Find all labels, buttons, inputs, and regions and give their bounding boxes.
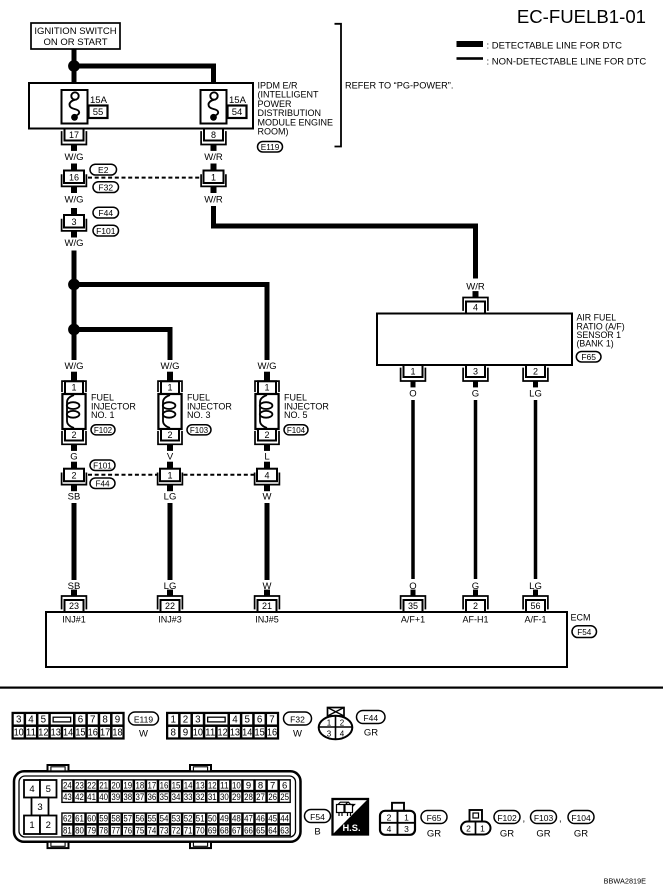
svg-text:16: 16 xyxy=(267,728,278,739)
svg-text:ECM: ECM xyxy=(571,613,591,623)
svg-text:3: 3 xyxy=(195,715,201,726)
svg-text:: NON-DETECTABLE LINE FOR DTC: : NON-DETECTABLE LINE FOR DTC xyxy=(487,57,647,68)
svg-text:12: 12 xyxy=(38,728,48,739)
svg-text:42: 42 xyxy=(75,792,84,803)
svg-text:54: 54 xyxy=(160,814,169,825)
connector 4 (F101/F44) xyxy=(255,462,280,492)
connector label F44 xyxy=(93,207,119,218)
IPDM pin 8 xyxy=(201,129,226,151)
svg-text:LG: LG xyxy=(164,492,177,503)
svg-text:63: 63 xyxy=(280,825,289,836)
svg-text:,: , xyxy=(559,814,562,825)
svg-text:F32: F32 xyxy=(98,182,113,192)
svg-text:4: 4 xyxy=(473,303,478,313)
svg-text:73: 73 xyxy=(160,825,169,836)
svg-text:70: 70 xyxy=(196,825,205,836)
svg-text:8: 8 xyxy=(258,780,263,791)
svg-text:10: 10 xyxy=(232,780,241,791)
dashed connector link F101/F44 right xyxy=(184,474,255,476)
connector label F101 row2 xyxy=(90,460,115,471)
svg-text:49: 49 xyxy=(220,814,229,825)
connector 3 (F44/F101) xyxy=(62,208,87,238)
svg-text:56: 56 xyxy=(135,814,144,825)
svg-text:3: 3 xyxy=(71,217,76,227)
svg-text:3: 3 xyxy=(327,730,332,739)
svg-text:GR: GR xyxy=(500,829,514,840)
svg-text:W/G: W/G xyxy=(65,361,84,372)
svg-text:71: 71 xyxy=(184,825,193,836)
svg-text:15: 15 xyxy=(75,728,86,739)
svg-text:F103: F103 xyxy=(534,813,554,823)
air fuel ratio sensor label xyxy=(577,313,625,349)
svg-text:L: L xyxy=(264,452,269,463)
svg-text:F103: F103 xyxy=(190,426,209,435)
svg-text:2: 2 xyxy=(71,471,76,481)
svg-text:23: 23 xyxy=(75,780,84,791)
svg-text:5: 5 xyxy=(46,784,51,795)
svg-text:3: 3 xyxy=(37,802,42,813)
connector label F103 for fuel injector No.3 xyxy=(187,425,211,435)
svg-text:E119: E119 xyxy=(134,714,153,724)
svg-text:55: 55 xyxy=(148,814,157,825)
svg-text:4: 4 xyxy=(387,824,392,834)
svg-text:O: O xyxy=(409,389,416,400)
svg-text:2: 2 xyxy=(264,430,269,440)
connector label F65 legend xyxy=(421,811,447,824)
svg-text:BBWA2819E: BBWA2819E xyxy=(604,877,646,886)
ECM connector pin grid rows 6-81 xyxy=(62,780,290,836)
svg-text:2: 2 xyxy=(387,812,392,822)
connector label F102 legend xyxy=(494,811,520,824)
svg-text:1: 1 xyxy=(264,383,269,393)
svg-text:14: 14 xyxy=(63,728,74,739)
svg-text:30: 30 xyxy=(220,792,229,803)
ECM connector key block pins 1-5 xyxy=(24,780,57,834)
svg-text:61: 61 xyxy=(75,814,84,825)
svg-text:6: 6 xyxy=(282,780,287,791)
wire SB to ECM xyxy=(72,503,77,580)
svg-text:15A: 15A xyxy=(90,95,108,106)
svg-text:15: 15 xyxy=(255,728,266,739)
svg-text:7: 7 xyxy=(269,715,274,726)
connector 16 (E2/F32) xyxy=(62,164,87,194)
svg-text:11: 11 xyxy=(205,728,215,739)
svg-text:17: 17 xyxy=(100,728,110,739)
wire G to ECM xyxy=(474,400,478,579)
svg-text:50: 50 xyxy=(208,814,217,825)
junction dot ignition branch xyxy=(68,60,80,72)
separator line xyxy=(0,687,663,689)
svg-text:6: 6 xyxy=(257,715,263,726)
svg-text:17: 17 xyxy=(69,130,79,140)
svg-text:35: 35 xyxy=(408,601,418,611)
svg-text:62: 62 xyxy=(63,814,72,825)
svg-text:REFER TO “PG-POWER”.: REFER TO “PG-POWER”. xyxy=(345,81,453,91)
svg-text:5: 5 xyxy=(41,715,47,726)
IPDM pin 17 xyxy=(62,129,87,151)
fuse 55 15A xyxy=(62,90,108,124)
svg-text:29: 29 xyxy=(232,792,241,803)
svg-text:79: 79 xyxy=(87,825,96,836)
svg-text:34: 34 xyxy=(172,792,181,803)
svg-text:31: 31 xyxy=(208,792,217,803)
connector F32 pin grid xyxy=(167,713,278,739)
connector label F44 row2 xyxy=(90,478,115,489)
svg-text:W/G: W/G xyxy=(65,195,84,206)
svg-text:1: 1 xyxy=(170,715,175,726)
svg-text:G: G xyxy=(472,389,479,400)
svg-text:W/G: W/G xyxy=(65,152,84,163)
wire W/R to air fuel ratio sensor xyxy=(214,206,476,279)
connector label F32 legend xyxy=(284,712,312,725)
svg-text:F44: F44 xyxy=(95,479,110,488)
svg-text:53: 53 xyxy=(172,814,181,825)
svg-text:5: 5 xyxy=(245,715,251,726)
connector label F102 for fuel injector No.1 xyxy=(91,425,115,435)
ECM pin 56 xyxy=(523,590,548,612)
connector label F44 legend xyxy=(357,711,386,724)
svg-text:F44: F44 xyxy=(363,713,378,723)
svg-text:W: W xyxy=(263,492,272,503)
svg-text:IGNITION SWITCH: IGNITION SWITCH xyxy=(34,26,116,37)
svg-text:12: 12 xyxy=(208,780,217,791)
svg-text:72: 72 xyxy=(172,825,181,836)
connector 1 (F101/F44) xyxy=(158,462,183,492)
svg-text:F104: F104 xyxy=(571,813,591,823)
svg-text:GR: GR xyxy=(427,829,441,840)
svg-text:AF-H1: AF-H1 xyxy=(462,615,488,625)
svg-text:16: 16 xyxy=(88,728,99,739)
svg-text:7: 7 xyxy=(270,780,275,791)
dashed connector link F101/F44 left xyxy=(88,474,157,476)
svg-text:F65: F65 xyxy=(581,352,596,362)
svg-text:48: 48 xyxy=(232,814,241,825)
svg-text:10: 10 xyxy=(193,728,204,739)
svg-text:V: V xyxy=(167,452,174,463)
svg-text:58: 58 xyxy=(111,814,120,825)
connector label F104 legend xyxy=(568,811,594,824)
svg-text:1: 1 xyxy=(167,383,172,393)
svg-text:W/R: W/R xyxy=(466,282,485,293)
svg-text:SB: SB xyxy=(68,492,81,503)
svg-text:39: 39 xyxy=(111,792,120,803)
svg-text:23: 23 xyxy=(69,601,79,611)
svg-text:4: 4 xyxy=(232,715,238,726)
svg-text:51: 51 xyxy=(196,814,205,825)
svg-text:56: 56 xyxy=(530,601,540,611)
connector label F54 legend xyxy=(305,810,331,823)
sensor pin 4 xyxy=(463,291,488,313)
svg-text:F44: F44 xyxy=(98,208,113,218)
svg-text:43: 43 xyxy=(63,792,72,803)
connector label F65 for sensor xyxy=(576,352,601,363)
svg-text:F102: F102 xyxy=(94,426,113,435)
svg-text:44: 44 xyxy=(280,814,289,825)
svg-text:H.S.: H.S. xyxy=(342,823,360,833)
fuel injector No.5 xyxy=(255,372,329,451)
svg-text:8: 8 xyxy=(102,715,108,726)
svg-text:8: 8 xyxy=(170,728,176,739)
svg-text:15: 15 xyxy=(172,780,181,791)
svg-text:14: 14 xyxy=(184,780,193,791)
connector label F104 for fuel injector No.5 xyxy=(284,425,308,435)
connector label E2 xyxy=(90,164,117,175)
svg-text:40: 40 xyxy=(99,792,108,803)
svg-text:F101: F101 xyxy=(96,226,116,236)
svg-text:22: 22 xyxy=(165,601,175,611)
connector F44 round face xyxy=(319,708,353,740)
svg-text:E119: E119 xyxy=(261,143,280,152)
svg-text:80: 80 xyxy=(75,825,84,836)
svg-text:W/R: W/R xyxy=(204,195,223,206)
wire LG to ECM xyxy=(168,503,173,580)
svg-text:69: 69 xyxy=(208,825,217,836)
svg-text:,: , xyxy=(523,814,526,825)
ECM pin 2 xyxy=(463,590,488,612)
svg-text:LG: LG xyxy=(529,389,542,400)
svg-text:14: 14 xyxy=(242,728,253,739)
svg-text:F102: F102 xyxy=(497,813,517,823)
svg-text:A/F+1: A/F+1 xyxy=(401,615,425,625)
wire branch to fuse 54 xyxy=(74,66,214,90)
connector F102/F103/F104 face xyxy=(461,810,491,835)
wire branch to injector No.5 xyxy=(74,285,267,361)
svg-text:3: 3 xyxy=(404,824,409,834)
ECM pin 23 xyxy=(62,590,87,612)
svg-text:NO. 5: NO. 5 xyxy=(284,410,308,420)
svg-text:GR: GR xyxy=(364,728,378,739)
air fuel ratio sensor box xyxy=(377,314,572,366)
sensor pin 1 xyxy=(401,365,426,387)
svg-text:32: 32 xyxy=(196,792,205,803)
svg-text:F54: F54 xyxy=(310,812,325,822)
svg-text:28: 28 xyxy=(244,792,253,803)
svg-text:78: 78 xyxy=(99,825,108,836)
svg-text:9: 9 xyxy=(115,715,120,726)
svg-text:INJ#5: INJ#5 xyxy=(255,615,279,625)
svg-text:INJ#1: INJ#1 xyxy=(62,615,86,625)
svg-text:4: 4 xyxy=(264,471,269,481)
svg-text:13: 13 xyxy=(196,780,205,791)
svg-text:GR: GR xyxy=(536,829,550,840)
connector label F101 xyxy=(93,225,119,236)
svg-text:59: 59 xyxy=(99,814,108,825)
connector label E119 for IPDM E/R xyxy=(258,142,283,153)
svg-text:57: 57 xyxy=(123,814,132,825)
svg-text:54: 54 xyxy=(232,107,243,118)
svg-text:10: 10 xyxy=(14,728,25,739)
IPDM E/R label text xyxy=(258,80,334,136)
svg-text:18: 18 xyxy=(135,780,144,791)
svg-text:: DETECTABLE LINE FOR DTC: : DETECTABLE LINE FOR DTC xyxy=(487,41,623,52)
svg-text:26: 26 xyxy=(268,792,277,803)
svg-text:F104: F104 xyxy=(287,426,306,435)
fuse 54 15A xyxy=(201,90,247,124)
svg-text:A/F-1: A/F-1 xyxy=(524,615,546,625)
svg-text:21: 21 xyxy=(99,780,108,791)
sensor pin 3 xyxy=(463,365,488,387)
svg-text:F32: F32 xyxy=(290,714,305,724)
svg-text:17: 17 xyxy=(148,780,157,791)
svg-text:19: 19 xyxy=(123,780,132,791)
svg-text:67: 67 xyxy=(232,825,241,836)
svg-text:4: 4 xyxy=(29,784,34,795)
svg-text:81: 81 xyxy=(63,825,72,836)
connector F65 face xyxy=(380,803,415,835)
svg-text:68: 68 xyxy=(220,825,229,836)
legend non-detectable line symbol xyxy=(457,57,484,60)
ignition switch box xyxy=(31,23,120,49)
svg-text:52: 52 xyxy=(184,814,193,825)
H.S. harness symbol xyxy=(333,799,369,835)
wire LG to ECM xyxy=(534,400,538,579)
svg-text:4: 4 xyxy=(340,730,345,739)
connector label F54 for ECM xyxy=(572,626,597,638)
svg-text:NO. 1: NO. 1 xyxy=(91,410,115,420)
svg-text:33: 33 xyxy=(184,792,193,803)
svg-text:2: 2 xyxy=(46,820,51,831)
svg-text:W/R: W/R xyxy=(204,152,223,163)
svg-text:13: 13 xyxy=(230,728,241,739)
svg-text:1: 1 xyxy=(167,471,172,481)
svg-text:W: W xyxy=(293,729,302,740)
svg-text:2: 2 xyxy=(340,719,345,728)
svg-text:B: B xyxy=(314,827,320,838)
svg-text:1: 1 xyxy=(211,172,216,182)
svg-text:3: 3 xyxy=(16,715,22,726)
svg-text:GR: GR xyxy=(574,829,588,840)
svg-text:11: 11 xyxy=(220,780,229,791)
svg-text:INJ#3: INJ#3 xyxy=(158,615,182,625)
connector 2 (F101/F44) xyxy=(62,462,87,492)
svg-text:12: 12 xyxy=(217,728,227,739)
svg-text:F65: F65 xyxy=(427,813,442,823)
svg-text:11: 11 xyxy=(26,728,36,739)
svg-text:1: 1 xyxy=(29,820,34,831)
legend detectable line symbol xyxy=(457,41,484,47)
connector E119 pin grid xyxy=(13,713,124,739)
svg-text:4: 4 xyxy=(28,715,34,726)
svg-text:66: 66 xyxy=(244,825,253,836)
IPDM E/R box xyxy=(29,83,253,129)
svg-text:3: 3 xyxy=(473,367,478,377)
svg-text:7: 7 xyxy=(90,715,95,726)
svg-text:W/G: W/G xyxy=(65,238,84,249)
refer bracket xyxy=(335,24,342,147)
svg-text:21: 21 xyxy=(262,601,272,611)
svg-text:8: 8 xyxy=(211,130,216,140)
svg-text:35: 35 xyxy=(160,792,169,803)
svg-text:1: 1 xyxy=(71,383,76,393)
svg-text:W/G: W/G xyxy=(258,361,277,372)
svg-text:9: 9 xyxy=(246,780,251,791)
svg-text:64: 64 xyxy=(268,825,277,836)
connector label E119 legend xyxy=(129,712,159,725)
svg-text:ON OR START: ON OR START xyxy=(43,37,107,48)
svg-text:(BANK 1): (BANK 1) xyxy=(577,339,614,349)
svg-text:18: 18 xyxy=(112,728,123,739)
svg-text:1: 1 xyxy=(410,367,415,377)
dashed connector link E2/F32 xyxy=(88,177,200,179)
svg-text:2: 2 xyxy=(466,824,471,834)
svg-text:6: 6 xyxy=(78,715,84,726)
svg-text:60: 60 xyxy=(87,814,96,825)
svg-text:9: 9 xyxy=(183,728,188,739)
svg-text:F101: F101 xyxy=(93,461,112,470)
svg-text:25: 25 xyxy=(280,792,289,803)
svg-text:E2: E2 xyxy=(98,165,109,175)
svg-text:16: 16 xyxy=(69,172,79,182)
svg-text:22: 22 xyxy=(87,780,96,791)
svg-text:76: 76 xyxy=(123,825,132,836)
svg-text:38: 38 xyxy=(123,792,132,803)
ECM connector F54 housing xyxy=(14,765,301,848)
svg-text:2: 2 xyxy=(533,367,538,377)
svg-text:65: 65 xyxy=(256,825,265,836)
svg-text:ROOM): ROOM) xyxy=(258,127,289,137)
svg-text:G: G xyxy=(70,452,77,463)
svg-text:15A: 15A xyxy=(229,95,247,106)
wire O to ECM xyxy=(411,400,415,579)
svg-text:16: 16 xyxy=(160,780,169,791)
svg-text:47: 47 xyxy=(244,814,253,825)
svg-text:F54: F54 xyxy=(577,628,592,637)
svg-text:1: 1 xyxy=(327,719,332,728)
wire W/G trunk xyxy=(72,251,77,361)
svg-text:13: 13 xyxy=(51,728,62,739)
svg-text:EC-FUELB1-01: EC-FUELB1-01 xyxy=(517,6,646,27)
ECM pin 22 xyxy=(158,590,183,612)
svg-text:27: 27 xyxy=(256,792,265,803)
svg-text:1: 1 xyxy=(480,824,485,834)
svg-text:46: 46 xyxy=(256,814,265,825)
sensor pin 2 xyxy=(523,365,548,387)
svg-text:W/G: W/G xyxy=(161,361,180,372)
svg-text:37: 37 xyxy=(135,792,144,803)
svg-text:20: 20 xyxy=(111,780,120,791)
svg-text:2: 2 xyxy=(167,430,172,440)
svg-text:55: 55 xyxy=(93,107,104,118)
wire W to ECM xyxy=(265,503,270,580)
svg-text:2: 2 xyxy=(183,715,188,726)
svg-text:W: W xyxy=(139,729,148,740)
connector 1 (E2/F32) xyxy=(201,164,226,194)
connector label F32 xyxy=(93,182,119,193)
svg-text:75: 75 xyxy=(135,825,144,836)
svg-text:2: 2 xyxy=(473,601,478,611)
wire ignition switch to fuse 55 xyxy=(72,49,77,90)
wire branch to injector No.3 xyxy=(74,330,170,361)
fuel injector No.3 xyxy=(158,372,232,451)
junction dot injector No.3 branch xyxy=(68,324,80,336)
ECM pin 35 xyxy=(401,590,426,612)
svg-text:1: 1 xyxy=(404,812,409,822)
connector label F103 legend xyxy=(531,811,557,824)
svg-text:2: 2 xyxy=(71,430,76,440)
junction dot injector No.5 branch xyxy=(68,279,80,291)
svg-text:45: 45 xyxy=(268,814,277,825)
ECM box xyxy=(46,612,567,667)
ECM pin 21 xyxy=(255,590,280,612)
svg-text:NO. 3: NO. 3 xyxy=(187,410,211,420)
svg-text:74: 74 xyxy=(148,825,157,836)
svg-text:24: 24 xyxy=(63,780,72,791)
svg-text:36: 36 xyxy=(148,792,157,803)
svg-text:77: 77 xyxy=(111,825,120,836)
fuel injector No.1 xyxy=(62,372,136,451)
svg-text:41: 41 xyxy=(87,792,96,803)
